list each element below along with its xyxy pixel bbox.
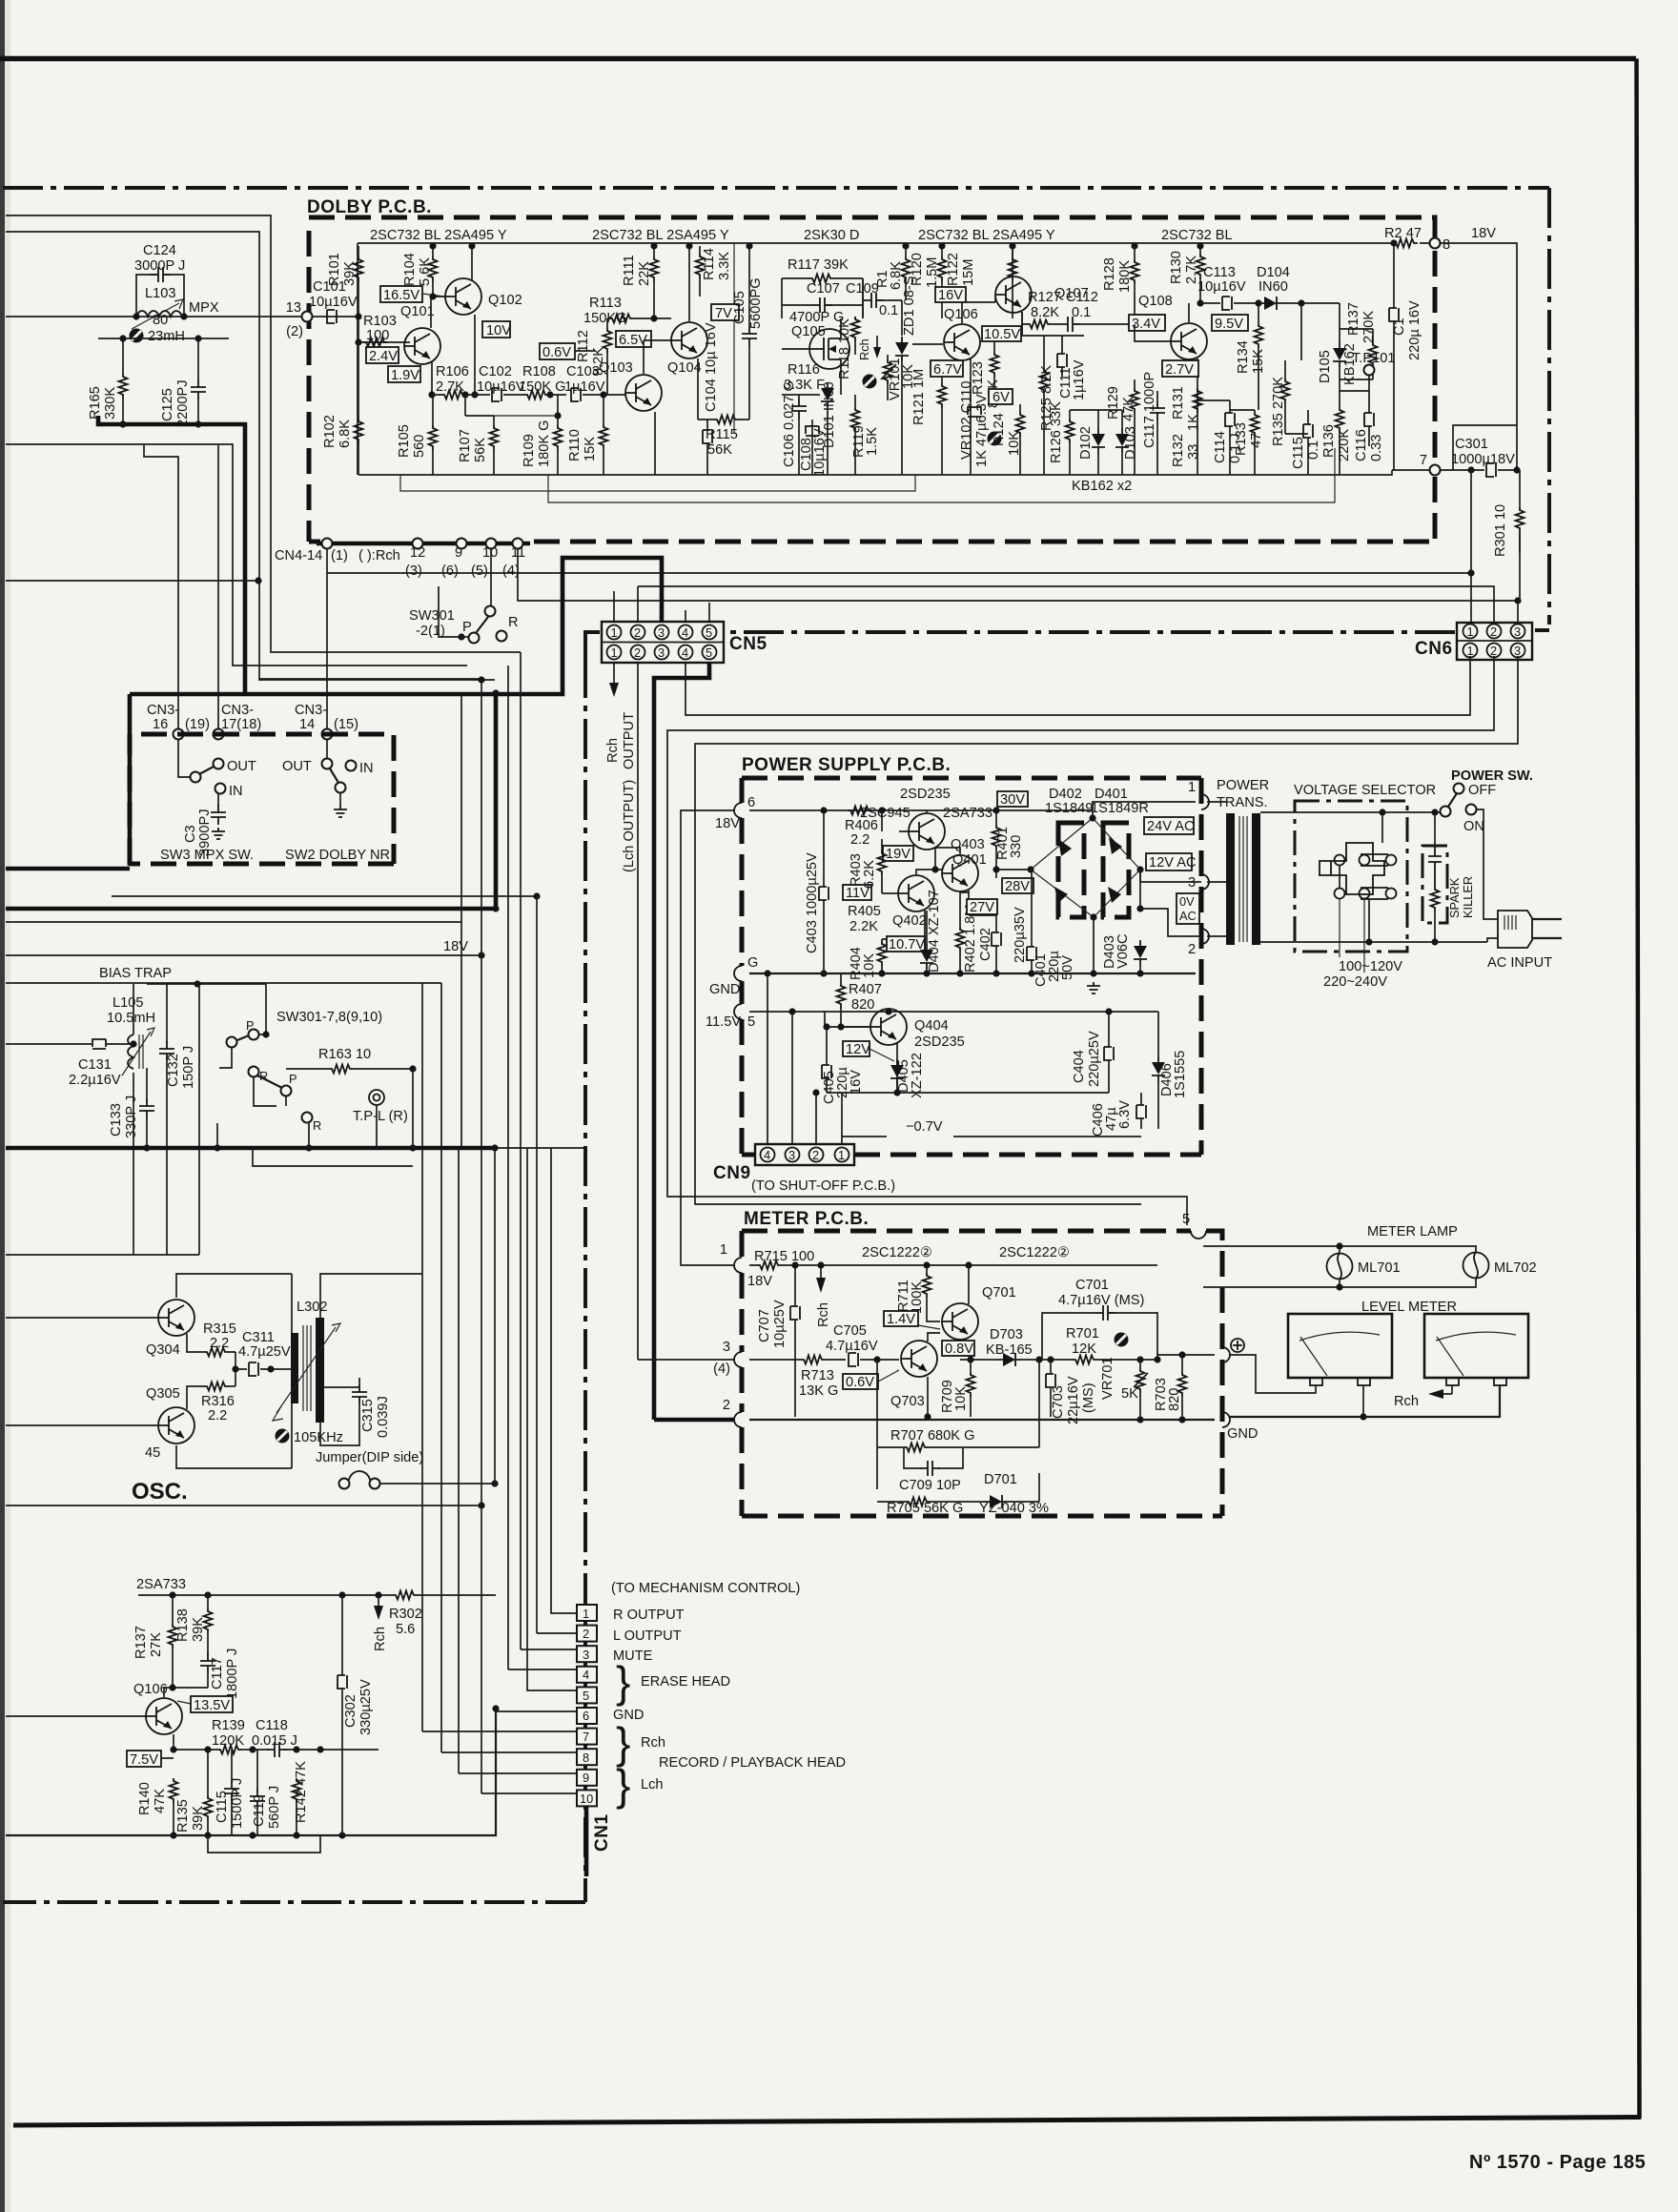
inner thin rect bottoms — [400, 448, 1335, 502]
svg-text:39K: 39K — [342, 261, 358, 286]
diode D406 1S1555 — [1152, 1056, 1165, 1081]
svg-text:19V: 19V — [886, 847, 911, 862]
svg-text:C311: C311 — [242, 1330, 275, 1345]
svg-text:VOLTAGE SELECTOR: VOLTAGE SELECTOR — [1294, 783, 1436, 798]
svg-text:T.P-L (R): T.P-L (R) — [353, 1109, 408, 1124]
spark killer connection — [1434, 812, 1436, 846]
test point T.P-L(R) — [369, 1090, 384, 1105]
voltage selector dash-dot box — [1295, 801, 1407, 952]
svg-text:CN9: CN9 — [713, 1163, 751, 1183]
svg-text:SW301-7,8(9,10): SW301-7,8(9,10) — [276, 1010, 382, 1025]
svg-text:R108: R108 — [522, 364, 556, 379]
thin bus wires left area — [112, 895, 537, 897]
svg-text:4: 4 — [583, 1668, 589, 1682]
svg-text:C709 10P: C709 10P — [899, 1478, 961, 1493]
adjuster VR701 — [1115, 1333, 1129, 1347]
capacitor C118 0.015J — [267, 1742, 287, 1757]
svg-text:56K: 56K — [707, 442, 732, 458]
svg-text:Rch: Rch — [857, 338, 871, 360]
svg-text:C115: C115 — [1291, 437, 1306, 469]
svg-text:BIAS TRAP: BIAS TRAP — [99, 966, 172, 981]
svg-text:IN: IN — [229, 784, 243, 799]
voltage 7V — [711, 304, 739, 321]
svg-text:12K: 12K — [1072, 1342, 1096, 1357]
wire Lch OUTPUT from CN5 pin2 down — [637, 663, 639, 1360]
voltage 10V — [482, 321, 511, 338]
svg-text:(TO SHUT-OFF P.C.B.): (TO SHUT-OFF P.C.B.) — [751, 1178, 895, 1194]
svg-text:GND: GND — [709, 982, 740, 997]
svg-text:C705: C705 — [833, 1323, 867, 1339]
svg-text:3.3K F: 3.3K F — [784, 378, 825, 393]
svg-text:R134: R134 — [1236, 340, 1251, 374]
voltage 30V — [997, 791, 1028, 808]
svg-text:KILLER: KILLER — [1461, 876, 1475, 918]
AC plug — [1498, 911, 1532, 948]
svg-text:C124: C124 — [143, 243, 176, 258]
resistor R406 2.2 — [848, 807, 872, 815]
ground below C3 — [212, 828, 225, 839]
capacitor C117 1800PJ — [200, 1653, 215, 1673]
svg-text:R105: R105 — [397, 424, 412, 458]
svg-text:2SD235: 2SD235 — [914, 1034, 965, 1050]
svg-text:D103: D103 — [1123, 426, 1138, 460]
bias trap top wire — [147, 984, 266, 1034]
svg-text:C302: C302 — [343, 1694, 358, 1728]
svg-text:R103: R103 — [363, 314, 397, 329]
svg-text:P: P — [289, 1072, 297, 1086]
CN3 connector nodes — [174, 729, 184, 740]
svg-text:10.7V: 10.7V — [889, 937, 925, 952]
svg-text:Q104: Q104 — [667, 360, 702, 376]
svg-text:2: 2 — [723, 1398, 730, 1413]
svg-text:C132: C132 — [166, 1054, 181, 1087]
svg-text:CN1: CN1 — [592, 1813, 612, 1852]
svg-text:D404 XZ-107: D404 XZ-107 — [927, 890, 942, 973]
svg-text:R707 680K G: R707 680K G — [890, 1428, 974, 1444]
svg-text:R135 270K: R135 270K — [1271, 377, 1286, 446]
page top border — [0, 56, 1636, 62]
svg-text:R112: R112 — [576, 330, 591, 362]
svg-text:2.2K: 2.2K — [849, 919, 878, 934]
bottom rail — [6, 1711, 496, 1835]
svg-text:D703: D703 — [990, 1327, 1023, 1342]
svg-text:1.5M: 1.5M — [925, 257, 940, 288]
svg-text:R113: R113 — [589, 296, 622, 311]
svg-text:(15): (15) — [334, 717, 358, 732]
svg-text:R316: R316 — [201, 1394, 235, 1409]
svg-text:C107: C107 — [807, 281, 840, 297]
voltage 28V — [1002, 878, 1033, 894]
capacitor C117 1000P — [1150, 400, 1165, 420]
adjuster on VR101 — [863, 375, 877, 389]
main PCB boundary along CN6 row right segment — [1535, 628, 1549, 632]
voltage 2.4V — [366, 347, 399, 364]
svg-text:2SD235: 2SD235 — [900, 787, 951, 802]
pin 2 bump — [734, 1412, 742, 1427]
main PCB dash-dot boundary top edge — [3, 186, 1549, 190]
svg-text:R127: R127 — [1028, 290, 1061, 305]
svg-text:8.2K: 8.2K — [1031, 305, 1059, 320]
svg-text:Rch: Rch — [1394, 1394, 1419, 1409]
svg-text:R118 10K: R118 10K — [837, 318, 852, 379]
power switch — [1454, 784, 1464, 794]
svg-text:R122: R122 — [946, 253, 961, 286]
first stage inner rect — [733, 243, 735, 434]
svg-text:2: 2 — [634, 625, 641, 640]
pin 3 bump — [734, 1352, 742, 1367]
svg-text:KB162 x2: KB162 x2 — [1072, 479, 1132, 494]
svg-text:80: 80 — [153, 313, 168, 328]
SPARK KILLER dash-dot box — [1422, 846, 1447, 923]
svg-text:5: 5 — [706, 645, 712, 660]
wire from left edge upper — [6, 215, 521, 652]
svg-text:2SC732 BL 2SA495 Y: 2SC732 BL 2SA495 Y — [592, 228, 729, 243]
svg-text:R705 56K G: R705 56K G — [887, 1501, 963, 1516]
capacitor C115 0.1 — [1303, 424, 1313, 438]
svg-text:C125: C125 — [160, 388, 175, 421]
svg-text:18V: 18V — [747, 1274, 772, 1289]
capacitor C114 0.1 J — [1225, 413, 1235, 426]
svg-text:47K: 47K — [153, 1789, 168, 1813]
svg-text:3.4V: 3.4V — [1132, 317, 1160, 332]
resistor R122 15M — [1009, 256, 1017, 281]
diode D403 V06C — [1134, 940, 1147, 965]
svg-text:11.5V: 11.5V — [706, 1014, 741, 1030]
svg-text:3000P J: 3000P J — [134, 258, 185, 274]
plus symbol — [1231, 1339, 1244, 1352]
svg-text:3: 3 — [1514, 644, 1521, 658]
svg-text:12V: 12V — [846, 1042, 870, 1057]
svg-text:47K: 47K — [1121, 397, 1136, 421]
svg-text:3: 3 — [788, 1148, 795, 1162]
resistor R107 56K — [490, 425, 499, 450]
svg-text:Q404: Q404 — [914, 1018, 949, 1034]
shorting bars — [1361, 854, 1388, 866]
capacitor C108 10u16V — [806, 426, 819, 436]
svg-text:14: 14 — [299, 717, 315, 732]
page bottom border — [13, 2118, 1641, 2126]
svg-text:7: 7 — [1420, 453, 1427, 468]
variable resistor VR101 10K — [884, 359, 892, 384]
svg-text:220µ35V: 220µ35V — [1013, 907, 1028, 963]
svg-text:R405: R405 — [848, 904, 881, 919]
capacitor C106 0.027G — [791, 399, 807, 419]
svg-text:OSC.: OSC. — [132, 1479, 188, 1505]
node line under L103 — [98, 338, 229, 379]
svg-text:1: 1 — [1467, 644, 1474, 658]
svg-text:45: 45 — [145, 1445, 160, 1461]
svg-text:10.5mH: 10.5mH — [107, 1011, 155, 1026]
wire Q703 collector to D703 — [960, 1359, 997, 1361]
voltage 6.7V — [931, 360, 963, 378]
svg-text:POWER: POWER — [1217, 778, 1269, 793]
main PCB boundary right edge — [1547, 188, 1551, 625]
svg-text:13K G: 13K G — [799, 1383, 838, 1399]
svg-text:R131: R131 — [1171, 386, 1186, 420]
capacitor C133 330PJ — [139, 1098, 154, 1118]
svg-text:10.5V: 10.5V — [984, 327, 1020, 342]
svg-text:0.8V: 0.8V — [945, 1342, 973, 1357]
svg-text:POWER SUPPLY P.C.B.: POWER SUPPLY P.C.B. — [742, 755, 951, 775]
svg-text:Rch: Rch — [641, 1735, 665, 1751]
svg-text:330: 330 — [1009, 835, 1024, 858]
svg-text:R129: R129 — [1106, 386, 1121, 420]
svg-text:OUT: OUT — [282, 759, 312, 774]
diode D103 — [1115, 428, 1129, 453]
voltage 3.4V — [1129, 315, 1165, 332]
svg-text:2SC1222②: 2SC1222② — [999, 1245, 1070, 1260]
meter box border — [742, 1231, 1222, 1516]
resistor R713 13K G — [801, 1356, 826, 1364]
Rch arrow — [820, 1265, 822, 1278]
svg-text:12V AC: 12V AC — [1149, 855, 1197, 870]
resistor R133 47 — [1251, 412, 1259, 437]
dolby top supply rail — [358, 242, 1435, 244]
CN9 riser wires — [767, 973, 842, 1144]
svg-text:METER LAMP: METER LAMP — [1367, 1224, 1458, 1239]
pin G bump — [734, 966, 742, 981]
bias trap bottom rail — [6, 984, 199, 1255]
svg-text:R163 10: R163 10 — [318, 1047, 371, 1062]
pin 5 bump — [734, 1004, 742, 1019]
CN3 riser wires — [144, 445, 218, 728]
svg-text:1S1555: 1S1555 — [1173, 1051, 1188, 1098]
bold gnd wire from CN5 pin5 — [654, 663, 709, 1420]
svg-text:220~240V: 220~240V — [1323, 974, 1387, 990]
svg-text:2SK30 D: 2SK30 D — [804, 228, 859, 243]
18V top rail — [749, 809, 1093, 811]
main PCB boundary bottom edge — [3, 1900, 585, 1904]
svg-text:5.6: 5.6 — [396, 1622, 415, 1637]
svg-text:ERASE HEAD: ERASE HEAD — [641, 1674, 730, 1690]
CN1 tail — [584, 1806, 589, 1876]
svg-text:33: 33 — [1186, 444, 1201, 460]
svg-text:100: 100 — [366, 328, 389, 343]
svg-text:Q703: Q703 — [890, 1394, 925, 1409]
svg-text:C104 10µ 16V: C104 10µ 16V — [704, 322, 719, 412]
page scan left edge — [0, 0, 5, 2212]
svg-text:5.6K: 5.6K — [418, 257, 433, 286]
svg-text:5600PG: 5600PG — [748, 277, 764, 329]
svg-text:Q403: Q403 — [951, 837, 985, 852]
resistor R131 1K — [1194, 388, 1202, 413]
capacitor C404 220u25V — [1104, 1047, 1114, 1060]
svg-text:L103: L103 — [145, 286, 175, 301]
resistor R124 10K — [1016, 412, 1025, 437]
resistor R106 2.7K — [441, 391, 466, 399]
svg-text:AC INPUT: AC INPUT — [1487, 955, 1552, 971]
transistor Q107 — [995, 276, 1032, 313]
transistor Q106 (dolby) — [944, 324, 980, 360]
resistor R137 27K — [169, 1624, 177, 1649]
svg-text:R136: R136 — [1321, 424, 1337, 458]
resistor R120 1.5M — [938, 256, 947, 281]
resistor R111 22K — [650, 256, 659, 281]
svg-text:18V: 18V — [1471, 226, 1496, 241]
CN9 connector — [755, 1144, 854, 1165]
svg-text:13: 13 — [286, 300, 301, 316]
resistor R119 1.5K — [851, 407, 860, 432]
svg-text:IN60: IN60 — [1258, 279, 1288, 295]
svg-text:4.7µ16V: 4.7µ16V — [826, 1339, 878, 1354]
105KHz adjustable core — [276, 1429, 290, 1444]
svg-text:50V: 50V — [1060, 955, 1075, 980]
svg-text:ML701: ML701 — [1358, 1260, 1401, 1276]
voltage 9.5V — [1212, 315, 1248, 332]
svg-text:2: 2 — [1490, 625, 1497, 639]
switch SW2 DOLBY NR — [326, 740, 328, 758]
svg-text:220µ 16V: 220µ 16V — [1407, 300, 1422, 360]
svg-text:R140: R140 — [137, 1782, 153, 1815]
resistor R109 180K G — [554, 425, 563, 450]
svg-text:7: 7 — [583, 1730, 589, 1744]
svg-text:D104: D104 — [1257, 265, 1290, 280]
svg-text:C114: C114 — [1213, 431, 1228, 463]
svg-text:47: 47 — [1249, 433, 1264, 448]
svg-text:Q305: Q305 — [146, 1386, 180, 1402]
voltage 16V — [935, 287, 966, 303]
svg-text:270K: 270K — [1361, 311, 1377, 343]
svg-text:180K: 180K — [1117, 260, 1133, 293]
svg-text:C106 0.027 G: C106 0.027 G — [782, 380, 797, 467]
svg-text:18V: 18V — [715, 816, 740, 831]
node 13 (2) input on dolby border — [302, 312, 313, 322]
lamp wires — [1203, 1246, 1476, 1287]
svg-text:0V: 0V — [1179, 894, 1195, 909]
wire to CN6 pin2 — [638, 586, 1494, 625]
svg-text:R128: R128 — [1102, 257, 1117, 291]
svg-text:R132: R132 — [1171, 434, 1186, 467]
svg-text:330P J: 330P J — [124, 1096, 139, 1138]
lamp ML702 — [1463, 1253, 1489, 1279]
svg-text:2.2: 2.2 — [208, 1408, 227, 1423]
selector internal wires — [1340, 812, 1435, 942]
svg-text:KB-165: KB-165 — [986, 1342, 1033, 1358]
voltage 6.5V — [616, 331, 651, 348]
svg-text:Rch: Rch — [605, 738, 621, 763]
svg-text:C116: C116 — [1354, 429, 1369, 461]
svg-text:TRANS.: TRANS. — [1217, 795, 1268, 810]
SW3/SW2 dash-dot box — [130, 734, 394, 864]
resistor R103 100 — [363, 338, 388, 347]
voltage 1.9V — [388, 366, 420, 383]
DOLBY P.C.B. dashed border — [309, 217, 1435, 542]
transistor Q403 — [909, 813, 945, 850]
svg-text:6.7V: 6.7V — [933, 362, 962, 378]
voltage 0.6V — [540, 343, 575, 360]
resistor R165 330K — [119, 374, 128, 399]
svg-text:P: P — [462, 620, 472, 635]
CN1 connector pin squares — [577, 1605, 597, 1806]
24VAC label — [1144, 817, 1195, 834]
svg-text:1000µ18V: 1000µ18V — [1451, 452, 1515, 467]
svg-text:6.8K: 6.8K — [338, 420, 353, 448]
resistor R402 1.8M + capacitor C402 — [956, 927, 965, 952]
main horizontal bus at 1204 — [6, 1146, 495, 1151]
CN5 connector — [602, 622, 724, 663]
svg-text:4.7µ16V (MS): 4.7µ16V (MS) — [1058, 1293, 1144, 1308]
svg-text:8: 8 — [1443, 237, 1450, 253]
bold bus wire through routing band — [130, 558, 662, 694]
svg-text:1: 1 — [611, 645, 618, 660]
svg-text:C707: C707 — [757, 1309, 772, 1342]
resistor R135 270K — [1281, 379, 1290, 403]
CN4 pin nodes — [322, 539, 333, 549]
svg-text:2SC732 BL: 2SC732 BL — [1161, 228, 1233, 243]
power supply box border — [742, 778, 1201, 1155]
resistor R139 120K — [217, 1746, 242, 1754]
transistor Q102 — [445, 278, 481, 315]
svg-text:7.5V: 7.5V — [130, 1752, 158, 1768]
Rch arrow down — [378, 1595, 379, 1606]
18V feed from PS pin6 to meter pin1 — [681, 810, 734, 1265]
svg-text:C133: C133 — [109, 1103, 124, 1137]
wire Rch OUTPUT from CN5 pin1 — [613, 663, 615, 683]
resistor R121 1M — [938, 383, 947, 408]
svg-text:2200PJ: 2200PJ — [175, 380, 191, 428]
svg-text:6: 6 — [583, 1709, 589, 1723]
svg-text:R107: R107 — [458, 429, 473, 462]
svg-text:R101: R101 — [327, 253, 342, 286]
svg-text:10µ16V: 10µ16V — [812, 428, 828, 477]
diode D102 — [1092, 428, 1105, 453]
level meter left — [1288, 1314, 1392, 1378]
resistor R404 10K — [878, 941, 887, 966]
diode D101 IN60 — [821, 382, 834, 407]
svg-text:C115: C115 — [215, 1791, 230, 1823]
svg-text:1.4V: 1.4V — [887, 1312, 915, 1327]
svg-text:2.4V: 2.4V — [369, 349, 398, 364]
pin 6 bump — [734, 803, 742, 818]
svg-text:22K: 22K — [637, 261, 652, 286]
svg-text:1µ16V: 1µ16V — [564, 379, 605, 395]
svg-text:R165: R165 — [88, 386, 103, 420]
ground symbol on GND rail — [1087, 982, 1100, 993]
svg-text:( ):Rch: ( ):Rch — [358, 548, 400, 563]
CN6 connector — [1457, 623, 1532, 660]
svg-text:R110: R110 — [567, 429, 583, 461]
svg-text:Q101: Q101 — [400, 304, 435, 319]
svg-text:R407: R407 — [849, 982, 882, 997]
Q101 emitter wire — [431, 362, 433, 395]
wire loop below R107/R109 — [494, 415, 558, 417]
svg-text:CN5: CN5 — [729, 634, 767, 654]
svg-text:C117 1000P: C117 1000P — [1142, 372, 1157, 448]
svg-text:220K: 220K — [1337, 429, 1352, 461]
svg-text:C112: C112 — [1066, 290, 1098, 305]
emitter rail — [161, 1750, 379, 1758]
svg-text:2.7K: 2.7K — [436, 379, 464, 395]
sub loop below rail — [208, 1835, 320, 1853]
svg-text:CN3-: CN3- — [147, 703, 179, 718]
svg-text:R OUTPUT: R OUTPUT — [613, 1608, 685, 1623]
resistor R128 180K — [1131, 259, 1139, 284]
svg-text:ML702: ML702 — [1494, 1260, 1537, 1276]
svg-text:30V: 30V — [1000, 792, 1025, 808]
feed wires to CN1 — [422, 1148, 577, 1793]
svg-text:39K: 39K — [191, 1617, 206, 1642]
spark killer resistor — [1431, 887, 1440, 911]
capacitor C125 2200PJ — [191, 379, 206, 399]
svg-text:2SC1222②: 2SC1222② — [862, 1245, 932, 1260]
svg-text:R130: R130 — [1169, 251, 1184, 284]
svg-text:0.1: 0.1 — [1306, 440, 1321, 460]
svg-text:C703: C703 — [1051, 1385, 1066, 1419]
svg-text:LEVEL METER: LEVEL METER — [1361, 1300, 1457, 1315]
svg-text:3: 3 — [658, 645, 665, 660]
svg-text:8: 8 — [583, 1751, 589, 1765]
svg-text:(1): (1) — [331, 548, 348, 563]
